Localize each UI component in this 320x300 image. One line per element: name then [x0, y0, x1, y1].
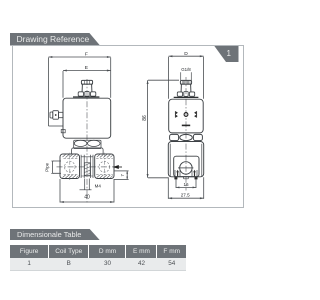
nut under coil (front)	[74, 140, 101, 148]
svg-text:F: F	[85, 52, 88, 58]
coil slot	[182, 125, 190, 127]
G1/8 extension lines	[181, 72, 192, 80]
header tab: Drawing Reference	[10, 33, 100, 46]
right coil body (side)	[169, 99, 204, 133]
right bracket outer	[168, 142, 203, 177]
left foot detail	[175, 170, 180, 176]
dimension table	[10, 245, 186, 270]
svg-text:27.5: 27.5	[181, 192, 190, 197]
center hatched block (M4 hole)	[84, 163, 90, 176]
coil bottom-left step	[61, 130, 65, 133]
coil center circle	[184, 113, 188, 117]
svg-text:7: 7	[120, 173, 125, 176]
bottom notch	[184, 177, 189, 179]
plate under nut	[72, 148, 104, 155]
7 dimension	[114, 171, 129, 180]
flow arrow into right port	[113, 165, 119, 169]
center section verticals	[81, 155, 93, 178]
svg-text:Pipe: Pipe	[45, 162, 50, 171]
right cap nut flange	[177, 92, 182, 96]
table tab: Dimensionale Table	[10, 229, 100, 241]
left port thread hatch bottom	[63, 175, 79, 178]
coil clip glyph left	[174, 111, 176, 117]
svg-text:M4: M4	[95, 184, 102, 189]
figure badge 1	[214, 46, 239, 63]
svg-text:16: 16	[183, 182, 189, 187]
left cap nut flange	[78, 92, 83, 96]
svg-text:40: 40	[84, 195, 90, 201]
white patch over border right of badge	[239, 46, 242, 61]
connector plug	[59, 112, 64, 117]
svg-text:86: 86	[142, 115, 148, 121]
right centerline	[185, 77, 187, 191]
valve body right port block	[95, 154, 114, 179]
left coil body	[63, 98, 111, 138]
dimension texts	[45, 51, 192, 201]
left view horizontal centerline through ports	[57, 166, 120, 168]
E dimension	[63, 71, 111, 98]
svg-text:G1/8: G1/8	[181, 67, 191, 72]
86 dimension	[148, 80, 179, 178]
port circle	[180, 162, 192, 174]
nut under right coil (side)	[170, 134, 179, 140]
right port dashed circle	[99, 162, 110, 173]
right port dashed bore lines	[96, 159, 113, 175]
right cap body	[180, 84, 191, 91]
bracket inner walls	[170, 144, 202, 177]
D dimension	[169, 56, 204, 99]
M4 stem below body	[85, 179, 90, 191]
16 dimension	[176, 179, 196, 188]
right port thread hatch bottom	[97, 175, 113, 178]
valve body left port block	[60, 154, 80, 179]
left port thread hatch top	[63, 155, 79, 158]
content frame	[12, 45, 244, 208]
Pipe dimension bracket	[51, 161, 61, 173]
27.5 dimension	[168, 177, 203, 199]
left cap knurled top	[81, 80, 92, 84]
40 dimension	[60, 179, 114, 203]
right foot detail	[192, 170, 197, 176]
right cap knurled top	[180, 80, 191, 84]
left port dashed bore lines	[64, 159, 79, 175]
left cap body	[81, 84, 92, 91]
F dimension	[49, 57, 111, 126]
svg-text:D: D	[184, 51, 188, 57]
right port thread hatch top	[97, 155, 113, 158]
left view centerline	[86, 79, 88, 203]
coil clip glyph right	[196, 111, 198, 117]
right body inner	[174, 156, 199, 176]
left port dashed circle	[65, 162, 76, 173]
